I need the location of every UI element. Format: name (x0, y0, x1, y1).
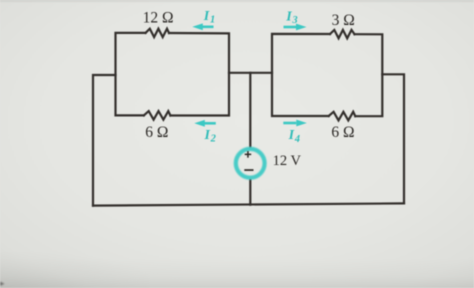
svg-text:6 Ω: 6 Ω (145, 124, 168, 141)
svg-text:12 V: 12 V (273, 153, 302, 169)
svg-text:3 Ω: 3 Ω (332, 12, 355, 29)
svg-text:12 Ω: 12 Ω (143, 10, 174, 27)
svg-text:6 Ω: 6 Ω (331, 124, 354, 141)
